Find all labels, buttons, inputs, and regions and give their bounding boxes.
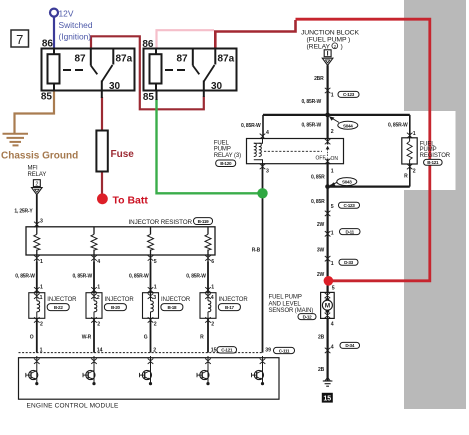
wire: dark red relay1 30 to fuse to battery [101,97,103,131]
svg-text:87: 87 [177,54,189,65]
transistor Q5 [252,356,266,385]
connector chevron [325,348,331,353]
svg-text:5: 5 [332,286,335,292]
svg-text:INJECTOR: INJECTOR [47,297,77,303]
svg-text:1: 1 [40,295,43,301]
svg-text:2: 2 [97,322,100,328]
svg-text:12V: 12V [59,8,74,18]
wire: dark red from relay1 87 to relay2 30 [91,36,204,109]
transistor Q4 [197,356,211,385]
svg-text:D-34: D-34 [345,343,355,348]
wire: pink relay2 86 coil feed [157,30,215,48]
svg-text:2: 2 [40,322,43,328]
fuel pump relay OFF/ON switch arrow [327,149,329,158]
svg-text:REGISTOR: REGISTOR [420,153,451,159]
svg-text:1: 1 [331,93,334,99]
resistor R2 [91,227,97,262]
fuel pump resistor R box [402,138,417,164]
svg-text:RELAY: RELAY [28,172,47,178]
svg-text:G: G [144,335,148,341]
svg-text:0, 85R-W: 0, 85R-W [301,123,321,129]
relay K1 (MFI relay left half) box [42,49,135,91]
svg-text:D-33: D-33 [344,260,354,265]
svg-text:C-123: C-123 [343,203,355,208]
relay K2 (MFI relay right half) box [144,49,237,91]
svg-text:MFI: MFI [28,166,38,172]
wire: top bus to fuel pump resistor [263,114,410,116]
svg-text:OFF: OFF [316,156,326,162]
wire: red battery feed loop from relay2 87a to junction block and fuel pump [215,20,295,49]
svg-text:S044: S044 [343,123,353,128]
junction block label [301,30,359,51]
svg-text:3: 3 [266,169,269,175]
svg-text:3W: 3W [317,248,325,254]
injector 3 [143,293,159,319]
svg-text:3: 3 [153,295,156,301]
relay K1 coil [48,54,60,83]
junction block output triangle connector [322,58,333,65]
resistor R4 [205,227,211,262]
relay K2 actuation dashed link [165,69,185,71]
MFI relay fuse box symbol [33,180,40,187]
svg-text:30: 30 [211,81,223,92]
node: red junction dot to fuel pump [324,276,334,286]
svg-text:1: 1 [331,230,334,236]
svg-text:0, 85R-W: 0, 85R-W [388,123,408,129]
svg-text:1: 1 [154,285,157,291]
svg-text:2B: 2B [318,367,325,373]
ECU connector dashed line [19,352,264,354]
svg-text:1: 1 [97,285,100,291]
motor M symbol [322,300,332,310]
svg-text:RELAY (3): RELAY (3) [214,153,241,159]
svg-text:0, 85R: 0, 85R [311,199,325,205]
engine control module box [19,358,280,400]
svg-text:2: 2 [35,181,38,187]
relay K1 contact 87a [112,49,114,65]
svg-text:(Ignition): (Ignition) [59,31,92,41]
relay K2 coil [150,54,162,83]
svg-text:B-17: B-17 [225,305,235,310]
svg-text:M: M [325,303,330,310]
svg-text:2: 2 [153,347,156,353]
fuse component [96,131,107,172]
12V switched label [59,8,93,41]
MFI relay triangle connector [32,188,43,195]
injector 1 [29,293,45,319]
svg-text:B-119: B-119 [198,219,210,224]
white panel behind fuel pump resistor [386,111,456,190]
svg-text:14: 14 [97,347,103,353]
svg-text:5: 5 [331,204,334,210]
fuel pump and level sensor unit [321,292,335,318]
connector C-121 [217,347,237,353]
svg-text:R-B: R-B [252,248,261,254]
svg-text:O: O [30,335,34,341]
junction block fuse box symbol [324,50,331,57]
svg-text:): ) [341,43,343,50]
node S044 junction dot [325,113,330,118]
svg-text:0, 85R-W: 0, 85R-W [241,123,261,129]
relay K2 common arm to 30 [204,65,215,82]
svg-text:5: 5 [154,259,157,265]
fuel pump registor name label [420,142,451,159]
svg-text:INJECTOR RESISTOR: INJECTOR RESISTOR [129,219,193,226]
connector chevron [325,256,331,261]
svg-text:0, 85R-W: 0, 85R-W [72,274,92,280]
injector 4 [200,293,216,319]
svg-text:AND LEVEL: AND LEVEL [269,302,302,308]
svg-text:15: 15 [323,396,331,403]
wire from MFI relay to injector resistor pin 3 [36,195,38,227]
svg-text:1: 1 [40,285,43,291]
transistor Q3 [140,356,154,385]
svg-text:To Batt: To Batt [113,195,149,207]
svg-text:0, 85R-W: 0, 85R-W [186,274,206,280]
resistor R3 [148,227,154,262]
svg-text:ENGINE CONTROL MODULE: ENGINE CONTROL MODULE [27,402,120,409]
svg-text:C-111: C-111 [279,348,290,353]
svg-text:86: 86 [142,39,154,50]
svg-text:): ) [348,37,350,44]
svg-text:B-121: B-121 [427,160,439,165]
wire: main vertical fuel pump feed [327,65,329,138]
pin 3 of fuel pump relay, wire down to ECU pin 39 [262,164,264,353]
svg-text:87: 87 [75,54,87,65]
relay K1 contact 87 [90,49,92,66]
svg-text:S043: S043 [342,180,352,185]
gray side panel [404,0,466,409]
svg-text:30: 30 [109,81,121,92]
svg-text:D-12: D-12 [303,314,313,319]
svg-text:39: 39 [265,347,271,353]
relay K2 contact 87 [192,49,194,66]
ground: chassis ground symbol [3,134,29,146]
relay K2 85 black stub [156,91,158,101]
svg-text:4: 4 [97,259,100,265]
svg-text:D-11: D-11 [345,229,354,234]
relay K1 actuation dashed link [63,69,83,71]
ground: fuel pump ground symbol [323,381,333,386]
svg-text:1: 1 [331,169,334,175]
svg-text:4: 4 [211,295,214,301]
svg-text:15: 15 [211,347,217,353]
svg-text:1: 1 [40,347,43,353]
svg-text:7: 7 [16,32,23,47]
svg-text:1, 25R-Y: 1, 25R-Y [14,209,33,215]
svg-text:INJECTOR: INJECTOR [161,297,191,303]
page number 7 box [11,30,29,47]
relay K1 common arm to 30 [102,65,113,82]
wire: brown relay1 85 to chassis ground [15,91,55,134]
svg-text:2W: 2W [317,272,325,278]
svg-text:W-R: W-R [82,335,92,341]
wires from resistors to injectors with 0.85R-W labels [36,262,38,293]
transistor Q2 [83,356,97,385]
connector chevron on feed wire [325,88,331,93]
injector resistor block box [26,227,215,255]
svg-text:2: 2 [413,169,416,175]
svg-text:C-121: C-121 [221,348,233,353]
svg-text:C-123: C-123 [343,92,355,97]
SECTION placeholders [3,9,430,281]
wire: blue 12V switched feed to relay1 86 [53,17,55,49]
node: green junction dot [257,188,267,198]
svg-text:2W: 2W [317,222,325,228]
fuel pump relay dashed actuation line [264,150,322,152]
svg-text:INJECTOR: INJECTOR [219,297,249,303]
svg-text:B-18: B-18 [168,305,178,310]
svg-text:0, 85R: 0, 85R [311,175,325,181]
svg-text:6: 6 [211,259,214,265]
svg-text:B-22: B-22 [54,305,64,310]
svg-text:1: 1 [413,131,416,137]
svg-text:Switched: Switched [59,20,93,30]
svg-text:4: 4 [331,344,334,350]
connector chevron [325,231,331,236]
svg-text:87a: 87a [218,54,235,65]
transistor Q1 [26,356,40,385]
svg-text:2: 2 [211,322,214,328]
svg-text:3: 3 [40,219,43,225]
svg-text:2: 2 [331,129,334,135]
svg-text:1: 1 [40,259,43,265]
resistor R1 [34,227,40,262]
connector chevron [325,211,331,216]
svg-text:85: 85 [143,92,155,103]
svg-text:4: 4 [266,130,269,136]
svg-text:4: 4 [331,321,334,327]
fuel pump relay name label [214,140,241,159]
ground reference 15 box [322,393,333,403]
connector C-111 [274,347,295,353]
svg-text:R: R [404,174,408,180]
svg-text:1: 1 [211,285,214,291]
svg-text:INJECTOR: INJECTOR [105,297,135,303]
svg-text:87a: 87a [116,54,133,65]
svg-text:B-120: B-120 [220,161,232,166]
svg-text:Chassis Ground: Chassis Ground [1,151,78,162]
svg-text:0, 85R-W: 0, 85R-W [129,274,149,280]
svg-text:B-20: B-20 [111,305,121,310]
injector 2 [86,293,102,319]
svg-text:PUMP: PUMP [214,147,231,153]
svg-text:Fuse: Fuse [111,149,135,160]
svg-text:R: R [200,335,204,341]
svg-text:ON: ON [331,156,339,162]
svg-text:86: 86 [42,39,54,50]
node: 12V terminal circle [50,9,58,17]
svg-text:1: 1 [331,261,334,267]
connector chevron fuel pump relay pin 4 [260,134,266,139]
svg-text:85: 85 [41,92,53,103]
node: To Batt red dot [97,193,108,204]
fuel pump sensor name label [269,294,314,314]
svg-text:2B: 2B [318,335,325,341]
relay K2 contact 87a [214,49,216,65]
svg-text:2: 2 [97,295,100,301]
svg-text:FUEL PUMP: FUEL PUMP [269,294,302,300]
svg-text:2BR: 2BR [314,76,324,82]
svg-text:0, 85R-W: 0, 85R-W [301,99,321,105]
node S043 junction dot [325,184,330,189]
svg-text:FUEL: FUEL [214,140,230,146]
svg-text:0, 85R-W: 0, 85R-W [15,274,35,280]
svg-text:2: 2 [154,322,157,328]
wire: green relay2 85 to fuel pump relay pin 3 node [157,99,262,193]
fuel pump relay switch pins 2 and 1 [327,139,329,145]
fuel pump relay coil [254,139,263,164]
wire: bottom bus to fuel pump resistor pin 2 [328,186,410,188]
fuel pump relay FP box [247,139,344,164]
